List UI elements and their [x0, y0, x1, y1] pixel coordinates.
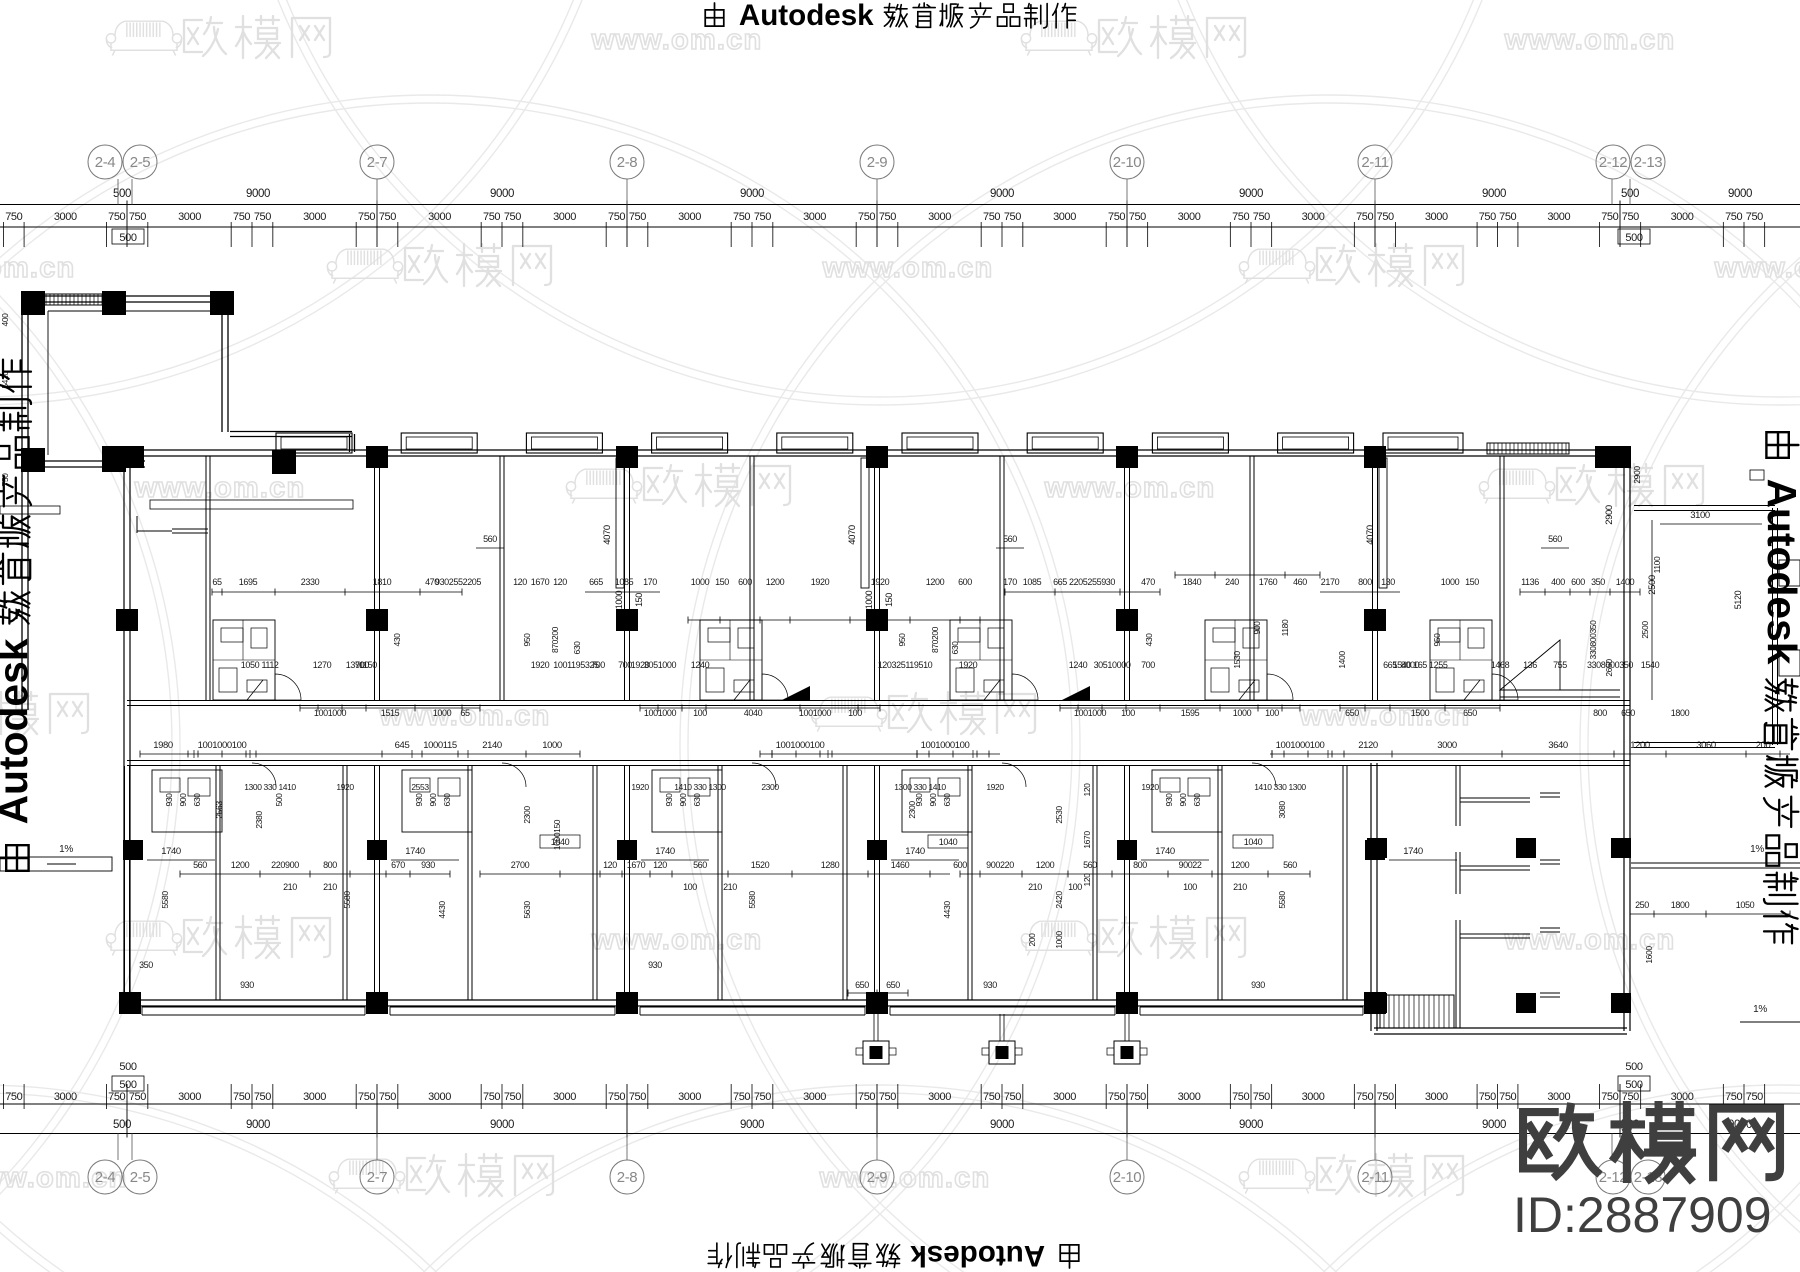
svg-text:1810: 1810 [373, 577, 392, 587]
svg-text:900: 900 [678, 793, 688, 807]
svg-text:930: 930 [421, 860, 435, 870]
partition bottom band [967, 766, 969, 1000]
door arc [762, 674, 788, 700]
svg-text:1040: 1040 [1244, 837, 1263, 847]
ruler sub ticks [3, 1084, 5, 1109]
svg-text:630: 630 [572, 641, 582, 655]
svg-text:750: 750 [608, 1091, 625, 1103]
svg-text:3000: 3000 [1547, 1091, 1570, 1103]
right lower stairs detail [1500, 640, 1560, 690]
svg-text:120: 120 [603, 860, 617, 870]
svg-text:800: 800 [1593, 708, 1607, 718]
partition top band [749, 456, 751, 700]
stair pier [1124, 1014, 1126, 1041]
partition bottom band [215, 766, 217, 1000]
left annex walls [25, 295, 228, 297]
partition bottom band [342, 766, 344, 1000]
watermark logo oumowang [106, 921, 181, 955]
svg-text:750: 750 [483, 1091, 500, 1103]
svg-text:9000: 9000 [1482, 188, 1506, 200]
column bottom wall [866, 992, 888, 1014]
svg-text:1%: 1% [59, 844, 73, 855]
svg-text:9000: 9000 [1482, 1119, 1506, 1131]
svg-text:700: 700 [591, 660, 605, 670]
window bay [1027, 433, 1103, 453]
svg-text:2-7: 2-7 [367, 1169, 388, 1186]
grid bubble 2-9 [876, 1134, 878, 1161]
door arc [1267, 674, 1293, 700]
svg-text:1200: 1200 [1630, 740, 1650, 751]
top band south wall [127, 700, 1630, 702]
svg-text:1515: 1515 [381, 708, 400, 718]
svg-text:600: 600 [1571, 577, 1585, 587]
ruler sub ticks [1394, 1084, 1396, 1109]
svg-text:930: 930 [664, 793, 674, 807]
partition top band [205, 456, 207, 700]
svg-text:665: 665 [1383, 660, 1397, 670]
balcony rail [142, 1006, 365, 1008]
column [102, 448, 126, 472]
column mid [616, 609, 638, 631]
ruler sub ticks [1147, 222, 1149, 247]
svg-text:www.om.cn: www.om.cn [1504, 24, 1676, 56]
svg-text:200: 200 [1027, 933, 1037, 947]
svg-text:1200: 1200 [926, 577, 945, 587]
svg-text:650: 650 [1463, 708, 1477, 718]
boxed 500 [1618, 1076, 1650, 1091]
svg-text:3000: 3000 [1437, 740, 1457, 751]
svg-text:150: 150 [715, 577, 729, 587]
svg-text:1800: 1800 [1671, 708, 1690, 718]
svg-text:1300 330 1410: 1300 330 1410 [894, 782, 946, 792]
svg-text:400: 400 [1551, 577, 1565, 587]
left ramp [0, 857, 112, 871]
wing column [1516, 993, 1536, 1013]
grid bubble 2-4 [117, 1134, 119, 1161]
svg-text:1500: 1500 [1411, 708, 1430, 718]
svg-text:630: 630 [692, 793, 702, 807]
svg-text:1670: 1670 [627, 860, 646, 870]
svg-text:630: 630 [442, 793, 452, 807]
svg-text:750: 750 [1232, 1091, 1249, 1103]
svg-text:120: 120 [653, 860, 667, 870]
partition bottom band [842, 766, 844, 1000]
column bottom band mid [867, 840, 887, 860]
grid bubble 2-8 [626, 179, 628, 205]
svg-text:1468: 1468 [1491, 660, 1510, 670]
column [102, 291, 126, 315]
svg-text:470: 470 [1141, 577, 1155, 587]
svg-text:750: 750 [5, 1091, 22, 1103]
grid tick [376, 201, 378, 248]
bath bottom band [652, 770, 722, 832]
door arc [1492, 674, 1518, 700]
svg-text:560: 560 [1548, 534, 1562, 544]
svg-text:750: 750 [879, 211, 896, 223]
bath bottom band [902, 770, 972, 832]
bathroom cluster [1205, 620, 1267, 700]
balcony rail [890, 1006, 1115, 1008]
svg-text:500: 500 [1625, 1061, 1642, 1073]
partition top band [999, 456, 1001, 700]
grid wall bottom band [374, 766, 376, 1000]
column [272, 450, 296, 474]
svg-text:4070: 4070 [1365, 525, 1376, 545]
svg-text:210: 210 [1233, 882, 1247, 892]
left banner (rotated -90) [0, 360, 36, 871]
bathroom cluster [950, 620, 1012, 700]
watermark logo oumowang [1479, 469, 1554, 503]
column bottom wall [1116, 992, 1138, 1014]
grid bubble 2-7 [376, 1134, 378, 1161]
window bay [777, 433, 853, 453]
svg-text:1920: 1920 [336, 782, 354, 792]
balcony rail [390, 1006, 615, 1008]
svg-text:9000: 9000 [1239, 1119, 1263, 1131]
svg-text:750: 750 [1377, 1091, 1394, 1103]
svg-text:2300: 2300 [907, 801, 917, 819]
ruler sub ticks [1640, 1084, 1642, 1109]
svg-text:2-11: 2-11 [1361, 154, 1388, 171]
svg-text:930: 930 [164, 793, 174, 807]
svg-text:1920: 1920 [959, 660, 978, 670]
top banner [705, 0, 1076, 32]
svg-text:Autodesk: Autodesk [1759, 479, 1800, 665]
grid tick [876, 201, 878, 248]
svg-text:900: 900 [928, 793, 938, 807]
svg-text:1112: 1112 [261, 660, 278, 670]
watermark logo oumowang [1239, 1159, 1314, 1193]
svg-text:560: 560 [1083, 860, 1097, 870]
grid bubble 2-12 [1611, 179, 1613, 205]
svg-text:500: 500 [113, 188, 131, 200]
wing stub wall [1460, 865, 1530, 867]
column bottom band mid [617, 840, 637, 860]
svg-text:1540: 1540 [1641, 660, 1660, 670]
wing right stub [1540, 859, 1560, 861]
grid tick [1126, 1084, 1128, 1138]
svg-text:630: 630 [1192, 793, 1202, 807]
svg-text:www.om.cn: www.om.cn [591, 924, 763, 956]
svg-text:2120: 2120 [1358, 740, 1378, 751]
svg-text:2-13: 2-13 [1634, 154, 1662, 171]
svg-text:3000: 3000 [928, 211, 951, 223]
svg-text:1740: 1740 [1403, 846, 1423, 857]
svg-text:500: 500 [119, 232, 136, 244]
svg-text:750: 750 [858, 211, 875, 223]
grid bubble 2-10 [1126, 179, 1128, 205]
column [21, 448, 45, 472]
svg-text:1200: 1200 [1036, 860, 1055, 870]
column top wall [616, 446, 638, 468]
right annex walls [1634, 505, 1775, 507]
wardrobe strip [861, 458, 869, 588]
svg-text:120325119510: 120325119510 [878, 660, 933, 670]
grid bubble 2-9 [876, 179, 878, 205]
svg-text:1740: 1740 [1155, 846, 1175, 857]
svg-text:3000: 3000 [303, 1091, 326, 1103]
grid wall top band [374, 456, 376, 700]
svg-text:120: 120 [513, 577, 527, 587]
ruler sub ticks [1394, 222, 1396, 247]
column bottom band mid [1365, 840, 1385, 860]
partition bottom band [1342, 766, 1344, 1000]
svg-text:3000: 3000 [428, 211, 451, 223]
svg-text:9000: 9000 [1728, 188, 1752, 200]
svg-text:750: 750 [1356, 211, 1373, 223]
svg-text:750: 750 [5, 211, 22, 223]
svg-text:2205255930: 2205255930 [1069, 577, 1115, 587]
ruler sub ticks [147, 222, 149, 247]
grid wall bottom band [874, 766, 876, 1000]
svg-text:600: 600 [738, 577, 752, 587]
svg-text:2900: 2900 [1632, 466, 1642, 484]
svg-text:120: 120 [1082, 873, 1092, 887]
right wing walls [1370, 763, 1372, 1031]
svg-text:700: 700 [1141, 660, 1155, 670]
svg-text:9000: 9000 [740, 1119, 764, 1131]
svg-text:1520: 1520 [751, 860, 770, 870]
svg-text:460: 460 [1293, 577, 1307, 587]
grid wall bottom band [124, 766, 126, 1000]
svg-text:800: 800 [1358, 577, 1372, 587]
svg-text:240: 240 [1225, 577, 1239, 587]
svg-text:2-7: 2-7 [367, 154, 388, 171]
svg-text:9000: 9000 [490, 1119, 514, 1131]
svg-text:750: 750 [358, 1091, 375, 1103]
svg-text:30510000: 30510000 [1094, 660, 1131, 670]
watermark logo oumowang [327, 249, 402, 283]
svg-text:3000: 3000 [1671, 211, 1694, 223]
ruler sub ticks [397, 222, 399, 247]
bottom banner (rotated 180) [708, 1239, 1079, 1272]
svg-text:210: 210 [323, 882, 337, 892]
svg-text:930: 930 [240, 980, 254, 990]
svg-text:430: 430 [392, 633, 402, 647]
svg-text:1000: 1000 [614, 590, 624, 609]
door arc bottom band [752, 763, 776, 787]
svg-text:1740: 1740 [161, 846, 181, 857]
annex window hatch [38, 294, 108, 305]
svg-text:750: 750 [1004, 211, 1021, 223]
annex inner ledges [48, 310, 218, 312]
window bay wide [1383, 433, 1463, 453]
svg-text:1980: 1980 [153, 740, 173, 751]
svg-text:750: 750 [754, 1091, 771, 1103]
svg-text:930: 930 [1251, 980, 1265, 990]
svg-text:1200: 1200 [766, 577, 785, 587]
main right wall upper [1623, 453, 1625, 762]
svg-text:ID:2887909: ID:2887909 [1513, 1187, 1772, 1243]
svg-text:1000: 1000 [1054, 931, 1064, 949]
svg-text:210: 210 [1028, 882, 1042, 892]
svg-text:2553: 2553 [411, 782, 429, 792]
svg-text:1%: 1% [1750, 844, 1764, 855]
svg-text:600: 600 [958, 577, 972, 587]
svg-text:750: 750 [379, 1091, 396, 1103]
wing column [1367, 838, 1387, 858]
svg-text:1085: 1085 [1023, 577, 1042, 587]
svg-text:750: 750 [1499, 211, 1516, 223]
grid bubble 2-13 [1629, 179, 1631, 205]
svg-text:www.om.cn: www.om.cn [591, 24, 763, 56]
svg-text:350: 350 [139, 960, 153, 970]
svg-text:1920: 1920 [811, 577, 830, 587]
svg-text:900: 900 [178, 793, 188, 807]
grid bubble 2-4 [117, 179, 119, 205]
svg-text:750: 750 [1601, 1091, 1618, 1103]
svg-text:2-9: 2-9 [867, 1169, 888, 1186]
svg-text:1085: 1085 [615, 577, 634, 587]
svg-text:3000: 3000 [54, 1091, 77, 1103]
svg-text:9000: 9000 [246, 1119, 270, 1131]
svg-text:1920: 1920 [531, 660, 550, 670]
svg-text:600: 600 [953, 860, 967, 870]
svg-text:1530: 1530 [1232, 651, 1242, 669]
svg-text:750: 750 [983, 1091, 1000, 1103]
svg-text:170: 170 [1003, 577, 1017, 587]
svg-text:750: 750 [1004, 1091, 1021, 1103]
wardrobe strip [616, 458, 624, 588]
wing column [1611, 993, 1631, 1013]
svg-text:1740: 1740 [905, 846, 925, 857]
svg-text:750: 750 [379, 211, 396, 223]
svg-text:4070: 4070 [847, 525, 858, 545]
svg-text:250: 250 [1635, 900, 1649, 910]
column bottom band mid [367, 840, 387, 860]
svg-text:4430: 4430 [942, 901, 952, 919]
svg-text:3000: 3000 [428, 1091, 451, 1103]
svg-text:750: 750 [504, 1091, 521, 1103]
svg-text:750: 750 [983, 211, 1000, 223]
svg-text:750: 750 [1356, 1091, 1373, 1103]
grid bubble 2-5 [131, 1134, 133, 1161]
svg-text:3000: 3000 [1302, 211, 1325, 223]
svg-text:1280: 1280 [821, 860, 840, 870]
svg-text:1050: 1050 [241, 660, 260, 670]
ruler sub ticks [647, 1084, 649, 1109]
svg-text:9000: 9000 [990, 1119, 1014, 1131]
svg-text:9000: 9000 [1239, 188, 1263, 200]
svg-text:870200: 870200 [550, 626, 560, 653]
svg-text:800: 800 [1133, 860, 1147, 870]
main top wall [106, 449, 1630, 451]
svg-text:750: 750 [1622, 211, 1639, 223]
svg-text:9302552205: 9302552205 [435, 577, 481, 587]
ruler sub ticks [647, 222, 649, 247]
door arc [1012, 674, 1038, 700]
column mid [366, 609, 388, 631]
svg-text:1670: 1670 [1082, 831, 1092, 849]
svg-text:930: 930 [1164, 793, 1174, 807]
column bottom band mid [1117, 840, 1137, 860]
svg-text:1740: 1740 [655, 846, 675, 857]
svg-text:www.om.cn: www.om.cn [819, 1162, 991, 1194]
svg-text:1400: 1400 [1337, 651, 1347, 669]
svg-text:750: 750 [1253, 1091, 1270, 1103]
svg-text:2-12: 2-12 [1599, 154, 1627, 171]
window bay [652, 433, 728, 453]
svg-text:330800350: 330800350 [1588, 620, 1598, 660]
grid tick [126, 1084, 128, 1138]
svg-text:500: 500 [1625, 232, 1642, 244]
svg-text:750: 750 [1725, 1091, 1742, 1103]
svg-text:5580: 5580 [1277, 891, 1287, 909]
svg-text:Autodesk: Autodesk [739, 0, 874, 32]
svg-text:750: 750 [233, 211, 250, 223]
svg-text:3051000: 3051000 [644, 660, 677, 670]
svg-text:120: 120 [553, 577, 567, 587]
watermark logo oumowang [329, 1159, 404, 1193]
svg-text:930: 930 [648, 960, 662, 970]
wardrobe strip [1379, 458, 1387, 588]
wing column [1611, 838, 1631, 858]
watermark logo oumowang [811, 697, 886, 731]
svg-text:750: 750 [1108, 211, 1125, 223]
ruler sub ticks [897, 1084, 899, 1109]
wing column [1367, 993, 1387, 1013]
grid tick [626, 1084, 628, 1138]
grid bubble 2-13 [1629, 1134, 1631, 1161]
svg-text:750: 750 [233, 1091, 250, 1103]
window bay [276, 433, 352, 453]
svg-text:5580: 5580 [747, 891, 757, 909]
svg-text:100: 100 [848, 708, 862, 718]
bathroom cluster [213, 620, 275, 700]
svg-text:500: 500 [274, 793, 284, 807]
grid wall top band [874, 456, 876, 700]
svg-text:120: 120 [1082, 783, 1092, 797]
svg-text:560: 560 [1283, 860, 1297, 870]
svg-text:3000: 3000 [678, 211, 701, 223]
ruler sub ticks [147, 1084, 149, 1109]
svg-text:220900: 220900 [271, 860, 299, 870]
watermark logo oumowang [1021, 21, 1096, 55]
bath bottom band [1152, 770, 1222, 832]
svg-text:3000: 3000 [178, 1091, 201, 1103]
svg-text:2530: 2530 [1054, 806, 1064, 824]
svg-text:670: 670 [391, 860, 405, 870]
hatched window right [1487, 443, 1569, 454]
svg-text:700: 700 [618, 660, 632, 670]
svg-text:2420: 2420 [1054, 891, 1064, 909]
svg-text:www.om.cn: www.om.cn [1714, 252, 1800, 284]
grid tick [876, 1084, 878, 1138]
svg-text:130: 130 [1381, 577, 1395, 587]
svg-text:1%: 1% [1753, 1004, 1767, 1015]
svg-text:3000: 3000 [1547, 211, 1570, 223]
door arc [275, 674, 301, 700]
grid tick [376, 1084, 378, 1138]
column top wall [366, 446, 388, 468]
svg-text:500: 500 [119, 1079, 136, 1091]
svg-text:1100: 1100 [1652, 556, 1662, 573]
svg-text:www.om.cn: www.om.cn [0, 252, 75, 284]
grid bubble 2-5 [131, 179, 133, 205]
svg-text:Autodesk: Autodesk [0, 638, 36, 824]
grid tick [126, 201, 128, 248]
boxed 500 [1618, 229, 1650, 244]
svg-text:2-4: 2-4 [95, 1169, 116, 1186]
svg-text:750: 750 [858, 1091, 875, 1103]
svg-text:750: 750 [1108, 1091, 1125, 1103]
svg-text:1200: 1200 [231, 860, 250, 870]
door arc bottom band [1002, 763, 1026, 787]
grid wall bottom band [1124, 766, 1126, 1000]
wing right stub [1540, 992, 1560, 994]
svg-text:750: 750 [733, 211, 750, 223]
svg-text:2-8: 2-8 [617, 1169, 638, 1186]
